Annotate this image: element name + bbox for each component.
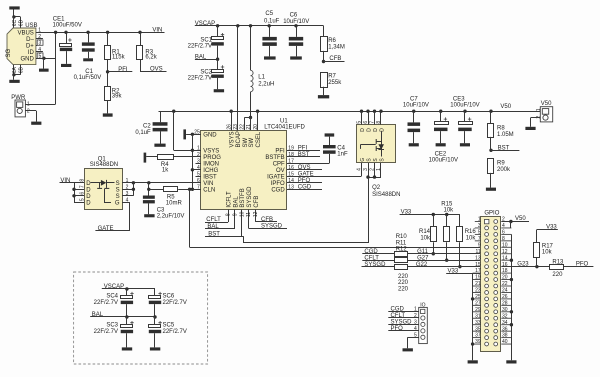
resistor R1	[107, 32, 109, 46]
svg-text:12: 12	[253, 211, 259, 217]
svg-text:22F/2.7V: 22F/2.7V	[188, 76, 212, 82]
svg-text:1,34M: 1,34M	[328, 44, 345, 50]
svg-text:USB: USB	[25, 23, 37, 29]
ground (SC5)	[150, 347, 160, 350]
resistor R9	[488, 159, 494, 174]
pin 12 CFB wire	[255, 210, 257, 222]
wire VSCAP rail	[195, 25, 324, 27]
ground (V50 pin2)	[531, 117, 541, 119]
svg-text:CLN: CLN	[203, 188, 215, 194]
svg-text:30: 30	[502, 307, 508, 313]
svg-text:17: 17	[475, 268, 481, 274]
svg-text:VSYS: VSYS	[230, 131, 236, 147]
resistor R3	[140, 32, 142, 46]
resistor R2	[105, 87, 111, 101]
svg-text:C4: C4	[337, 145, 345, 151]
svg-text:VIN: VIN	[152, 27, 162, 33]
svg-text:5: 5	[80, 198, 86, 201]
svg-text:G11: G11	[417, 249, 429, 255]
svg-text:100uF/10V: 100uF/10V	[450, 103, 479, 109]
svg-text:23: 23	[233, 124, 239, 130]
pin 8 CFLT wire	[228, 210, 230, 223]
svg-text:2: 2	[38, 34, 41, 40]
svg-text:100uF/50V: 100uF/50V	[53, 23, 82, 29]
svg-text:CFLT: CFLT	[206, 217, 221, 223]
svg-text:22F/2.7V: 22F/2.7V	[188, 44, 212, 50]
pin 13 CGD net stub	[287, 189, 322, 191]
svg-text:6D: 6D	[18, 19, 24, 26]
svg-text:ICFLT: ICFLT	[226, 191, 232, 208]
svg-text:ICHG: ICHG	[203, 168, 218, 174]
svg-text:C7: C7	[410, 96, 418, 102]
svg-text:1k: 1k	[162, 168, 169, 174]
ground (R2)	[103, 113, 113, 116]
svg-text:CE3: CE3	[453, 96, 465, 102]
svg-text:D: D	[86, 201, 91, 207]
svg-text:BAL: BAL	[233, 196, 239, 208]
svg-text:CE1: CE1	[53, 16, 65, 22]
ground (USB shield bottom)	[13, 75, 15, 80]
svg-text:5: 5	[357, 121, 363, 124]
svg-text:19: 19	[475, 275, 481, 281]
svg-text:6,2k: 6,2k	[145, 55, 157, 61]
svg-text:17: 17	[288, 159, 294, 165]
svg-text:1: 1	[536, 108, 542, 111]
svg-text:6A: 6A	[12, 67, 18, 74]
capacitor C3	[148, 183, 150, 196]
svg-text:38: 38	[502, 333, 508, 339]
svg-text:26: 26	[227, 124, 233, 130]
pin 1 VSYS wire	[173, 111, 175, 150]
op-amp U1 LTC4041EUFD body	[201, 131, 287, 210]
svg-text:2: 2	[126, 185, 129, 191]
svg-text:11: 11	[246, 212, 252, 217]
svg-text:31: 31	[475, 313, 481, 319]
svg-text:37: 37	[475, 333, 481, 339]
connector USB	[7, 28, 36, 65]
svg-text:32: 32	[502, 313, 508, 319]
svg-text:18: 18	[502, 268, 508, 274]
svg-text:GPIO: GPIO	[484, 210, 499, 216]
svg-text:6: 6	[197, 178, 200, 184]
svg-text:CSEL: CSEL	[256, 131, 262, 147]
ground (USB shield top)	[9, 6, 19, 9]
node PFO wire	[564, 266, 594, 268]
svg-text:ID: ID	[28, 50, 35, 56]
svg-text:V50: V50	[541, 101, 552, 107]
svg-text:PFI: PFI	[275, 149, 285, 155]
pin 4 stub	[36, 51, 43, 53]
svg-text:10k: 10k	[444, 207, 455, 213]
pin 3 IMON stub	[196, 163, 202, 165]
svg-text:39k: 39k	[112, 93, 123, 99]
svg-text:10k: 10k	[542, 250, 553, 256]
svg-text:BAL: BAL	[92, 312, 104, 318]
svg-text:CGD: CGD	[271, 188, 285, 194]
svg-text:0,1uF: 0,1uF	[135, 130, 151, 136]
svg-text:220: 220	[398, 286, 409, 292]
wire (shield pins join top)	[14, 16, 21, 18]
svg-text:R17: R17	[542, 243, 554, 249]
svg-text:C6: C6	[290, 12, 298, 18]
pin 15 GATE wire to Q2	[287, 176, 361, 178]
svg-text:16: 16	[288, 165, 294, 171]
ground (CE3)	[460, 143, 470, 146]
svg-text:CFLT: CFLT	[391, 313, 406, 319]
resistor R16	[459, 215, 461, 227]
svg-text:4: 4	[197, 165, 200, 171]
svg-text:BCAP: BCAP	[236, 131, 242, 147]
pin 10 BST wire	[241, 210, 243, 237]
svg-text:SW: SW	[243, 137, 249, 147]
svg-text:25: 25	[475, 294, 481, 300]
capacitor C1	[88, 32, 90, 42]
svg-text:22: 22	[240, 124, 246, 130]
svg-text:D: D	[360, 128, 366, 132]
svg-text:D+: D+	[26, 44, 34, 50]
ground (SC3)	[122, 347, 132, 350]
svg-text:35: 35	[475, 326, 481, 332]
svg-text:SC6: SC6	[163, 293, 175, 299]
wire GND column	[192, 134, 194, 189]
wire BST to Q2 source	[243, 236, 245, 243]
svg-text:V50: V50	[500, 104, 511, 110]
node PFI (divider)	[108, 71, 133, 73]
svg-text:2: 2	[27, 109, 30, 115]
svg-text:25: 25	[194, 130, 200, 136]
node G23 wire	[501, 266, 549, 268]
ground (C3)	[144, 214, 154, 217]
svg-text:13: 13	[475, 255, 481, 261]
svg-text:8: 8	[376, 121, 382, 124]
svg-text:SC2: SC2	[200, 70, 212, 76]
svg-text:24: 24	[502, 288, 508, 294]
svg-text:GATE: GATE	[98, 226, 114, 232]
pin 19 PFI net stub	[287, 150, 320, 152]
svg-text:R14: R14	[419, 229, 431, 235]
svg-text:11: 11	[475, 249, 480, 255]
svg-text:8: 8	[80, 179, 86, 182]
svg-text:PFO: PFO	[576, 262, 589, 268]
svg-text:0,1uF: 0,1uF	[264, 18, 280, 24]
svg-text:3: 3	[478, 223, 481, 229]
ground (C6)	[290, 56, 302, 59]
svg-text:C5: C5	[265, 11, 273, 17]
svg-text:D: D	[379, 128, 385, 132]
svg-text:1: 1	[376, 168, 382, 171]
svg-text:5: 5	[478, 230, 481, 236]
svg-text:19: 19	[288, 146, 294, 152]
svg-text:OVS: OVS	[150, 66, 163, 72]
resistor R13	[550, 265, 564, 270]
svg-text:PFO: PFO	[391, 326, 404, 332]
wire VBUS rail	[36, 32, 165, 34]
pin 18 BST net stub	[287, 156, 320, 158]
resistor R4	[144, 153, 147, 163]
svg-text:G27: G27	[417, 256, 429, 262]
svg-text:PFI: PFI	[298, 146, 308, 152]
svg-text:IBST: IBST	[203, 175, 217, 181]
svg-text:3: 3	[39, 41, 42, 47]
pin 25 GND wire + rotated ground	[186, 134, 201, 136]
pin 5 IBST stub	[196, 176, 202, 178]
svg-text:IPFO: IPFO	[271, 181, 285, 187]
svg-text:R9: R9	[497, 161, 505, 167]
pin 11 SYSGD wire	[248, 210, 250, 229]
ground (C5)	[264, 56, 276, 59]
svg-text:100uF/10V: 100uF/10V	[429, 158, 458, 164]
svg-text:VSYS: VSYS	[203, 149, 219, 155]
ground (CE2)	[436, 143, 446, 146]
svg-text:SYSGD: SYSGD	[391, 320, 413, 326]
pin 5 (boxed) GND wire	[37, 53, 43, 58]
svg-text:220: 220	[398, 274, 409, 280]
svg-text:15: 15	[288, 172, 294, 178]
svg-text:10: 10	[502, 242, 508, 248]
wire GND bus right	[511, 234, 513, 360]
svg-text:8: 8	[502, 236, 505, 242]
wire L1 to SW pins	[250, 92, 252, 118]
svg-text:R8: R8	[497, 126, 505, 132]
svg-text:BST: BST	[298, 152, 310, 158]
svg-text:L1: L1	[258, 75, 265, 81]
svg-text:SIS488DN: SIS488DN	[90, 162, 118, 168]
transistor Q2 SIS488DN body	[357, 125, 396, 163]
pin 4 ICHG wire	[192, 169, 201, 171]
resistor R17	[536, 257, 538, 267]
svg-text:13: 13	[288, 185, 294, 191]
Q1 MOSFET symbol	[91, 182, 101, 184]
ground (IO pin5)	[408, 337, 419, 339]
svg-text:LTC4041EUFD: LTC4041EUFD	[264, 125, 305, 131]
node V33 (R17 top)	[537, 229, 558, 231]
svg-text:9: 9	[233, 213, 239, 216]
svg-text:OV: OV	[276, 168, 285, 174]
svg-text:39: 39	[475, 339, 481, 345]
svg-text:C2: C2	[143, 124, 151, 130]
svg-text:GND: GND	[203, 133, 217, 139]
svg-text:D: D	[86, 194, 91, 200]
svg-text:4: 4	[38, 47, 41, 53]
svg-text:C1: C1	[85, 69, 93, 75]
svg-text:CPF: CPF	[273, 162, 285, 168]
svg-text:7: 7	[80, 185, 86, 188]
svg-text:6C: 6C	[12, 19, 18, 26]
svg-text:10uF/10V: 10uF/10V	[403, 103, 429, 109]
svg-text:6: 6	[502, 230, 505, 236]
svg-text:34: 34	[502, 320, 508, 326]
svg-text:20: 20	[502, 275, 508, 281]
svg-text:2: 2	[197, 152, 200, 158]
svg-text:14: 14	[288, 178, 294, 184]
svg-text:CGD: CGD	[391, 307, 405, 313]
svg-text:23: 23	[475, 288, 481, 294]
wire Q2 source join	[368, 163, 370, 177]
svg-text:9: 9	[478, 242, 481, 248]
wire Q1 source to U1 VIN	[122, 182, 201, 184]
svg-text:OVS: OVS	[298, 165, 311, 171]
svg-text:SIS488DN: SIS488DN	[372, 192, 400, 198]
svg-text:220: 220	[552, 272, 563, 278]
svg-text:SYSGD: SYSGD	[261, 224, 283, 230]
ground (R7)	[318, 95, 329, 98]
svg-text:CFB: CFB	[254, 196, 260, 208]
svg-text:S: S	[116, 181, 120, 187]
svg-text:BAL: BAL	[207, 224, 219, 230]
resistor R7	[321, 73, 328, 88]
capacitor C4	[329, 154, 331, 163]
svg-text:CFB: CFB	[261, 217, 273, 223]
svg-text:R16: R16	[465, 229, 477, 235]
svg-text:22F/2.7V: 22F/2.7V	[163, 300, 187, 306]
svg-text:PROG: PROG	[203, 155, 221, 161]
resistor R8	[490, 111, 492, 123]
svg-text:SC4: SC4	[106, 293, 118, 299]
Q2 MOSFET symbol	[381, 132, 383, 157]
pin 3 stub (boxed)	[36, 45, 37, 47]
svg-text:CGD: CGD	[298, 185, 312, 191]
ground (GPIO left)	[468, 360, 478, 363]
ground (CE1)	[61, 64, 71, 67]
svg-text:R11: R11	[396, 240, 407, 246]
svg-text:Q2: Q2	[372, 185, 381, 191]
svg-text:G22: G22	[416, 262, 428, 268]
svg-text:22F/2.7V: 22F/2.7V	[94, 300, 118, 306]
svg-text:15: 15	[475, 262, 481, 268]
svg-text:R7: R7	[328, 74, 336, 80]
resistor R5 (sense)	[149, 189, 164, 191]
ground (GPIO right)	[506, 360, 516, 363]
svg-text:GND: GND	[20, 56, 34, 62]
ground (C2)	[154, 144, 165, 147]
svg-text:G23: G23	[517, 262, 529, 268]
wire GND bus left	[472, 273, 474, 360]
GPIO right pin stubs and numbers	[501, 227, 511, 229]
svg-text:2,2uF/10V: 2,2uF/10V	[157, 214, 185, 220]
svg-text:3: 3	[197, 159, 200, 165]
svg-text:8: 8	[226, 213, 232, 216]
svg-text:GATE: GATE	[298, 172, 314, 178]
pin 26 VSYS top stub	[231, 111, 233, 130]
svg-text:R13: R13	[552, 259, 564, 265]
wire (shield pins join bottom)	[13, 65, 15, 75]
svg-text:21: 21	[246, 124, 252, 130]
svg-text:6B: 6B	[18, 67, 24, 74]
node PFO (IO pin4)	[388, 330, 418, 332]
svg-text:SW: SW	[249, 137, 255, 147]
svg-text:6: 6	[80, 192, 86, 195]
svg-text:115k: 115k	[112, 55, 126, 61]
GPIO left pin stubs and numbers	[475, 221, 481, 223]
svg-text:10k: 10k	[420, 236, 431, 242]
svg-text:D: D	[366, 128, 372, 132]
svg-text:VBUS: VBUS	[17, 31, 33, 37]
svg-text:VIN: VIN	[203, 181, 213, 187]
svg-text:3: 3	[126, 191, 129, 197]
svg-text:R5: R5	[167, 194, 175, 200]
pin 9 BAL wire	[234, 210, 236, 229]
ground (C1)	[83, 58, 93, 61]
svg-text:5: 5	[197, 172, 200, 178]
svg-text:IGATE: IGATE	[267, 175, 285, 181]
svg-text:SC3: SC3	[106, 323, 118, 329]
svg-text:1: 1	[197, 146, 200, 152]
wire V50 to GPIO pins 2,4	[501, 221, 529, 223]
wire Q1 source bus	[122, 189, 133, 191]
svg-text:36: 36	[502, 326, 508, 332]
svg-text:10mR: 10mR	[166, 201, 183, 207]
svg-text:S: S	[116, 194, 120, 200]
wire VSYS rail	[159, 111, 541, 113]
svg-text:12: 12	[502, 249, 508, 255]
ground (C7)	[409, 143, 419, 146]
svg-text:1: 1	[126, 178, 129, 184]
ground (PWR pin2)	[25, 110, 36, 112]
svg-text:G: G	[115, 201, 120, 207]
svg-text:V33: V33	[546, 225, 557, 231]
svg-text:CE2: CE2	[435, 151, 447, 157]
inductor L1	[250, 26, 252, 71]
ground (SC2)	[214, 89, 224, 92]
svg-text:C3: C3	[157, 207, 165, 213]
svg-text:10: 10	[239, 211, 245, 217]
svg-text:22: 22	[502, 281, 508, 287]
svg-text:1.05M: 1.05M	[497, 132, 514, 138]
pin 16 OVS net stub	[287, 169, 322, 171]
node CFLT (IO pin2)	[388, 317, 418, 319]
svg-text:0,1uF/50V: 0,1uF/50V	[74, 75, 102, 81]
svg-text:D–: D–	[26, 37, 34, 43]
svg-text:V50: V50	[515, 216, 526, 222]
svg-text:PFO: PFO	[298, 178, 311, 184]
svg-text:22F/2.7V: 22F/2.7V	[163, 329, 187, 335]
svg-text:40: 40	[502, 339, 508, 345]
node OVS	[140, 60, 142, 72]
svg-text:29: 29	[475, 307, 481, 313]
resistor R6	[323, 26, 325, 37]
svg-text:PFI: PFI	[118, 67, 128, 73]
svg-text:4: 4	[414, 326, 417, 332]
wire Q1 drain bus	[74, 183, 76, 203]
svg-text:18: 18	[288, 152, 294, 158]
svg-text:27: 27	[475, 300, 481, 306]
wire PWR pin1 to VBUS rail	[25, 104, 55, 106]
svg-text:10uF/10V: 10uF/10V	[283, 19, 309, 25]
pin 17 wire to C4	[287, 163, 329, 165]
svg-text:IMON: IMON	[203, 162, 219, 168]
svg-text:S: S	[116, 188, 120, 194]
svg-text:SC1: SC1	[200, 37, 212, 43]
svg-text:1nF: 1nF	[337, 152, 348, 158]
node GATE (Q1 gate)	[122, 202, 130, 204]
svg-text:R6: R6	[328, 38, 336, 44]
svg-text:R10: R10	[396, 234, 408, 240]
ground (USB GND pin)	[43, 58, 45, 68]
svg-text:7: 7	[370, 121, 376, 124]
svg-text:2,2uH: 2,2uH	[258, 82, 274, 88]
svg-text:BSTFB: BSTFB	[240, 188, 246, 207]
node SYSGD (IO pin3)	[388, 324, 418, 326]
svg-text:21: 21	[475, 281, 481, 287]
svg-text:D: D	[86, 188, 91, 194]
svg-text:200k: 200k	[497, 167, 511, 173]
svg-text:G: G	[360, 158, 366, 162]
svg-text:R12: R12	[396, 247, 408, 253]
pin 14 PFO net stub	[287, 182, 322, 184]
pin 20 CSEL top stub	[257, 111, 259, 130]
svg-text:SYSGD: SYSGD	[247, 186, 253, 208]
svg-text:4: 4	[502, 223, 505, 229]
